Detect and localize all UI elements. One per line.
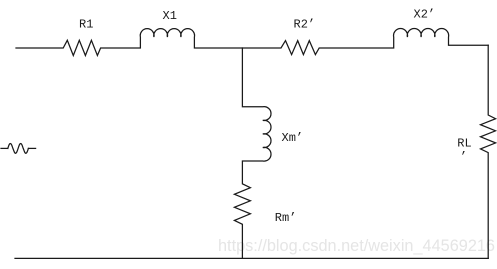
svg-text:R2’: R2’ xyxy=(294,18,316,32)
svg-text:X2’: X2’ xyxy=(414,8,436,22)
svg-text:’: ’ xyxy=(460,150,467,164)
svg-text:RL: RL xyxy=(457,137,471,151)
svg-text:https://blog.csdn.net/weixin_4: https://blog.csdn.net/weixin_44569216 xyxy=(218,237,495,255)
svg-text:X1: X1 xyxy=(163,9,177,23)
svg-text:R1: R1 xyxy=(79,18,93,32)
svg-text:Rm’: Rm’ xyxy=(275,211,297,225)
svg-text:Xm’: Xm’ xyxy=(282,131,304,145)
